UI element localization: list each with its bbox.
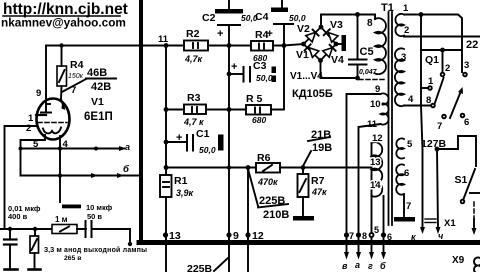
resistor R4 150k (vertical, variable mark) — [57, 46, 67, 100]
winding 7 ground stem — [403, 194, 405, 216]
header URL text — [1, 1, 128, 30]
wire node to S1 frame — [437, 136, 476, 166]
svg-text:3,3 м: 3,3 м — [44, 245, 62, 254]
svg-text:2: 2 — [445, 63, 450, 74]
svg-text:9: 9 — [375, 84, 380, 95]
svg-text:150к: 150к — [68, 73, 84, 80]
svg-text:225В: 225В — [187, 263, 213, 272]
svg-text:R4: R4 — [70, 59, 84, 71]
tube cathode curve — [43, 128, 61, 134]
S1 to plug dashed link — [472, 202, 477, 235]
svg-text:1 м: 1 м — [55, 215, 68, 224]
svg-text:C5: C5 — [360, 46, 374, 58]
svg-text:C1: C1 — [196, 128, 210, 140]
svg-text:265 в: 265 в — [64, 255, 81, 262]
junction R4 top — [59, 43, 63, 47]
svg-text:4,7 к: 4,7 к — [183, 117, 204, 127]
bottom-left wire — [0, 228, 86, 230]
svg-text:2: 2 — [26, 123, 31, 134]
svg-text:а: а — [125, 142, 130, 152]
svg-text:V1: V1 — [91, 96, 104, 108]
arrow a below bus — [356, 252, 361, 260]
diode V2 — [306, 30, 319, 42]
svg-text:C4: C4 — [255, 11, 269, 23]
bus node 12 — [245, 232, 250, 237]
svg-text:12: 12 — [372, 133, 383, 144]
svg-text:470к: 470к — [257, 177, 278, 187]
junction R6 left / line to node 12 — [246, 165, 251, 170]
wire R6 row from R1 junction to R6 — [166, 167, 256, 169]
wire bridge right corner to bar — [336, 43, 342, 45]
resistor 3,3M vertical — [29, 229, 41, 270]
svg-text:R4: R4 — [255, 29, 269, 41]
top rail pin1 to right corner — [404, 15, 462, 73]
svg-text:50,0: 50,0 — [289, 13, 306, 23]
wire pin1 junction down mains — [420, 15, 422, 106]
bus node 9 — [226, 232, 231, 237]
arrow g below bus — [369, 252, 374, 260]
svg-text:8: 8 — [362, 231, 367, 241]
wire R6 junction down to bus node 12 — [247, 168, 249, 272]
junction C5 bottom — [355, 76, 360, 81]
svg-text:680: 680 — [252, 115, 266, 125]
svg-text:в: в — [342, 261, 348, 271]
svg-text:10: 10 — [370, 99, 381, 110]
tube grid bar pin 1 — [36, 114, 46, 116]
svg-text:12: 12 — [252, 230, 264, 242]
junction R3/R5 row on line B — [227, 107, 232, 112]
wire from pin5 rail down to wire b — [20, 149, 22, 176]
ground bar of winding 7 — [394, 217, 415, 222]
tube anode pin 7 lead with arrow — [61, 99, 66, 110]
svg-text:5: 5 — [374, 225, 379, 235]
svg-text:2: 2 — [404, 25, 409, 36]
tap 11 wire to bus node 8 — [359, 124, 381, 253]
wire node11 down to R3 — [165, 46, 167, 110]
svg-text:3: 3 — [401, 52, 406, 63]
resistor R6 — [256, 163, 303, 173]
wire R3 to line B — [206, 109, 246, 111]
bus node 13 — [163, 232, 168, 237]
resistor R2 — [184, 41, 208, 51]
wire R5 right up to junction C4 (line C) — [271, 46, 284, 110]
svg-text:5: 5 — [407, 139, 413, 150]
svg-text:46В: 46В — [87, 67, 107, 79]
svg-text:14: 14 — [370, 180, 381, 191]
svg-text:7: 7 — [437, 121, 442, 132]
cord dashes — [425, 219, 436, 223]
svg-text:3,9к: 3,9к — [176, 188, 194, 198]
mains cord wire left — [420, 106, 425, 235]
output wire b — [21, 173, 142, 178]
wire pin 2 to left edge and down — [5, 126, 38, 229]
svg-text:анод выходной лампы: анод выходной лампы — [64, 246, 147, 254]
voltage callout 21V/19V — [303, 129, 332, 166]
wire top-left rail to node 11 — [46, 46, 284, 99]
svg-text:R7: R7 — [311, 175, 325, 187]
Q1 actuator arrow — [450, 87, 463, 118]
capacitor 10uF plate — [62, 205, 81, 209]
svg-text:X1: X1 — [444, 218, 456, 229]
winding 8 — [375, 15, 386, 75]
callout 225V below bus — [187, 258, 228, 272]
junction R7 top — [301, 165, 306, 170]
svg-text:R2: R2 — [186, 28, 200, 40]
resistor R3 — [184, 105, 206, 115]
junction R3 left — [164, 107, 169, 112]
svg-text:X9: X9 — [452, 255, 465, 266]
svg-text:V4: V4 — [331, 54, 344, 66]
bus node 5 (circle) — [370, 233, 374, 237]
Q1 contact 6 — [461, 114, 465, 118]
svg-text:10 мкф: 10 мкф — [86, 203, 113, 212]
svg-text:47к: 47к — [311, 187, 327, 197]
junction line B R6 row — [227, 165, 231, 169]
tap 4 wire to Q1 contact 8 — [404, 105, 431, 107]
chassis shield bus bottom — [139, 240, 480, 245]
junction R 3.3M — [33, 227, 37, 231]
svg-text:nkamnev@yahoo.com: nkamnev@yahoo.com — [1, 16, 126, 30]
wire node 9 below bus — [228, 236, 230, 272]
shield dashed line — [359, 79, 386, 81]
junction C2 — [227, 43, 232, 48]
wire pin 4 down — [59, 136, 61, 149]
node 127V — [435, 147, 440, 152]
svg-text:13: 13 — [169, 230, 181, 242]
svg-text:C2: C2 — [202, 12, 216, 24]
winding 5-7 — [396, 138, 404, 194]
mains cord wire right — [436, 149, 441, 234]
capacitor 0,01mkf — [4, 229, 18, 270]
svg-text:КД105Б: КД105Б — [292, 88, 333, 100]
svg-text:4: 4 — [408, 94, 414, 105]
capacitor C1 electrolytic — [166, 135, 224, 151]
svg-text:19В: 19В — [312, 142, 332, 154]
junction C3 — [227, 72, 232, 77]
svg-text:6Е1П: 6Е1П — [84, 111, 113, 123]
bus node 6 — [381, 232, 386, 237]
svg-text:R 5: R 5 — [246, 93, 263, 105]
junction C4/R4/bridge — [282, 43, 287, 48]
tube heater pin 9 lead — [41, 98, 51, 113]
wire bridge bottom rail — [321, 61, 358, 79]
svg-text:1: 1 — [403, 3, 409, 14]
arrow v below bus — [344, 252, 349, 260]
svg-text:7: 7 — [71, 85, 76, 96]
svg-text:к: к — [411, 232, 416, 242]
voltage callout 225V/210V — [248, 169, 289, 221]
Q1 blade 8-2 — [435, 78, 444, 104]
Q1 contact 1 — [421, 86, 432, 90]
svg-text:1: 1 — [428, 76, 434, 87]
svg-text:50,0: 50,0 — [256, 73, 273, 83]
svg-text:г: г — [368, 261, 373, 271]
winding 14 bottom to bus node 6 — [383, 196, 385, 253]
svg-text:+: + — [176, 132, 182, 144]
svg-text:C3: C3 — [253, 60, 267, 72]
wire bridge top to top rail — [321, 15, 375, 28]
svg-text:б: б — [380, 261, 386, 271]
diode V1 — [305, 44, 319, 57]
wire down to 10uF cap — [59, 176, 61, 203]
transformer core — [389, 12, 393, 225]
svg-text:R3: R3 — [187, 92, 201, 104]
svg-text:50,0: 50,0 — [199, 145, 216, 155]
diode V3 — [324, 29, 338, 42]
coupling capacitor to anode — [77, 221, 132, 246]
svg-text:б: б — [123, 164, 130, 175]
bus node 8 — [356, 232, 361, 237]
svg-text:R1: R1 — [174, 175, 188, 187]
resistor R7 — [298, 168, 309, 216]
Q1 contact 7 — [442, 115, 446, 119]
svg-text:11: 11 — [158, 34, 169, 45]
svg-text:6: 6 — [387, 232, 392, 242]
svg-text:V1: V1 — [296, 49, 309, 61]
header underline — [3, 15, 120, 17]
resistor 1M horizontal — [52, 225, 77, 234]
junction C5 top — [355, 12, 360, 17]
svg-text:V3: V3 — [330, 19, 343, 31]
junction on wire b — [58, 173, 62, 177]
diode bridge V1..V4 — [301, 25, 338, 63]
output wire a — [19, 146, 127, 151]
heater winding 9-11 — [381, 93, 389, 124]
resistor R5 — [246, 105, 271, 115]
svg-text:S1: S1 — [455, 174, 468, 186]
primary winding 1-2 — [395, 14, 404, 36]
voltage callout 46V/42V — [62, 67, 116, 93]
wire to R3 — [166, 109, 184, 111]
diode bridge wire from junction C4 to left corner — [284, 44, 304, 46]
resistor R1 — [160, 175, 172, 272]
winding 12-14 — [372, 142, 383, 196]
svg-text:7: 7 — [349, 231, 354, 241]
svg-text:6: 6 — [464, 117, 469, 128]
svg-text:8: 8 — [426, 95, 431, 106]
svg-text:9: 9 — [233, 230, 239, 242]
capacitor C4 electrolytic — [271, 0, 293, 46]
svg-text:6: 6 — [404, 168, 409, 179]
junction R1 top / R6 rail — [164, 165, 169, 170]
svg-text:8: 8 — [367, 18, 373, 29]
svg-text:9: 9 — [36, 88, 41, 99]
svg-text:42В: 42В — [91, 81, 111, 93]
svg-text:+: + — [217, 28, 223, 40]
connector X9 pins — [474, 257, 480, 272]
tap 2 wire to 220V terminal — [404, 36, 480, 38]
svg-text:400 в: 400 в — [8, 212, 28, 221]
capacitor C5 — [349, 15, 367, 79]
Q1 contact 2 feed — [421, 48, 462, 77]
svg-text:22: 22 — [466, 39, 478, 51]
tube deflection dashed electrode — [38, 122, 67, 124]
svg-text:225В: 225В — [259, 195, 285, 207]
svg-text:21В: 21В — [311, 129, 331, 141]
ground bar under R7 — [293, 216, 314, 221]
junction C1 — [164, 140, 169, 145]
bridge plus output bar — [342, 35, 347, 51]
svg-text:3: 3 — [464, 60, 469, 71]
svg-text:210В: 210В — [263, 209, 289, 221]
switch S1 blade — [461, 169, 480, 203]
arrow b below bus — [381, 252, 386, 260]
Q1 contact 8 — [431, 104, 435, 108]
node 11 junction — [164, 43, 169, 48]
Q1 contact 3 — [463, 73, 467, 77]
svg-text:а: а — [355, 260, 360, 270]
svg-text:R6: R6 — [257, 152, 271, 164]
wire pin 5 L-bend — [21, 135, 46, 149]
chassis shield bus vertical — [139, 0, 143, 242]
svg-text:ч: ч — [438, 231, 444, 241]
capacitor C3 electrolytic — [229, 67, 276, 83]
vertical line B C2 rail — [228, 46, 230, 237]
resistor R4 680 — [251, 41, 273, 51]
wire node11 rail down segment to R1 — [165, 110, 167, 176]
wire R6 row to transformer tap 13 — [303, 167, 372, 169]
svg-text:50 в: 50 в — [87, 212, 102, 221]
svg-text:13: 13 — [370, 157, 381, 168]
wire pin4 node down to wire b — [59, 149, 61, 176]
svg-text:4,7к: 4,7к — [184, 54, 203, 64]
capacitor C2 electrolytic — [215, 0, 243, 46]
tube V1 6E1P envelope — [37, 99, 70, 140]
svg-text:7: 7 — [406, 201, 411, 212]
winding 3-4 — [395, 48, 404, 106]
svg-text:V2: V2 — [297, 23, 310, 35]
tap 12 wire down to bus node 5 — [371, 143, 373, 253]
diode V4 — [323, 45, 336, 57]
svg-text:V1...V4: V1...V4 — [290, 71, 323, 82]
junction cap 0.01 — [8, 227, 12, 231]
tap 9 wire to bus node 7 — [347, 94, 381, 253]
svg-text:Q1: Q1 — [425, 54, 439, 66]
svg-text:+: + — [231, 61, 237, 73]
junction top rail — [419, 12, 424, 17]
bus node 7 — [344, 232, 349, 237]
